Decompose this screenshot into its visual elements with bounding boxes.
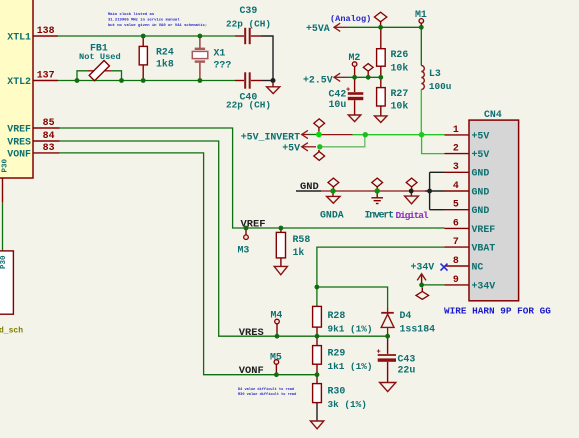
power symbol +34V [411, 262, 435, 285]
node GNDA junction [330, 188, 335, 193]
pin XTL1 (138) [7, 25, 58, 42]
svg-text:M3: M3 [238, 245, 250, 256]
power flag diamond (+5VA) [374, 12, 386, 27]
svg-text:9k1 (1%): 9k1 (1%) [328, 324, 373, 335]
capacitor C42 10u [329, 77, 364, 115]
wire FB1 bypass right [111, 71, 122, 81]
node +5VA/M1 corner junction [419, 25, 424, 30]
svg-text:+5V: +5V [472, 130, 490, 141]
CN4 pin 4 GND [445, 180, 490, 198]
CN4 pin 7 VBAT [445, 236, 496, 254]
wire VONF net [60, 153, 317, 375]
svg-text:L3: L3 [429, 68, 441, 79]
pin VONF (83) [7, 142, 60, 159]
svg-text:R26: R26 [391, 49, 409, 60]
power flag diamond (+34V) [416, 287, 429, 299]
svg-text:R58: R58 [293, 234, 311, 245]
svg-text:R29: R29 [328, 348, 346, 359]
node XTL2/X1 junction [198, 78, 203, 83]
svg-text:P30: P30 [0, 255, 8, 269]
svg-text:1k: 1k [293, 247, 305, 258]
svg-text:GND: GND [472, 186, 490, 197]
svg-text:10u: 10u [329, 99, 347, 110]
svg-text:+5V: +5V [472, 149, 490, 160]
svg-text:P30: P30 [2, 158, 10, 172]
svg-text:GNDA: GNDA [320, 210, 344, 221]
svg-text:d_sch: d_sch [0, 327, 23, 336]
svg-text:22p (CH): 22p (CH) [226, 100, 271, 111]
svg-text:GND: GND [472, 168, 490, 179]
svg-text:R24: R24 [156, 47, 174, 58]
connector CN4 [469, 109, 519, 301]
diode D4 1ss184 [381, 308, 435, 337]
inductor L3 100u [421, 27, 451, 92]
wire L3 to pin1 (bright) [420, 90, 422, 135]
svg-text:R28: R28 [328, 310, 346, 321]
svg-text:X1: X1 [214, 47, 226, 58]
svg-text:22u: 22u [398, 364, 416, 375]
resistor R30 3k (1%) [313, 375, 367, 421]
label GND [300, 181, 319, 193]
wire +2.5V net [347, 76, 381, 78]
test point M1 [415, 9, 427, 27]
svg-text:10k: 10k [391, 100, 409, 111]
node VONF/R29 junction [315, 372, 320, 377]
wire to pin 1 (bright) [353, 134, 445, 136]
node +5V branch junction [363, 132, 368, 137]
pin P30 (bottom of IC) [2, 158, 10, 202]
svg-text:6: 6 [453, 217, 459, 228]
wire GND red segment [321, 190, 425, 192]
node VBAT junction [315, 285, 320, 290]
wire VRES net [60, 141, 388, 336]
svg-text:GND: GND [472, 205, 490, 216]
svg-text:R30 value difficult to read: R30 value difficult to read [238, 392, 296, 397]
svg-text:8: 8 [453, 255, 459, 266]
node VREF/R58 junction [279, 226, 284, 231]
global label +2.5V [303, 73, 347, 85]
svg-text:+5V: +5V [282, 142, 300, 153]
CN4 pin 9 +34V [445, 274, 496, 292]
svg-text:1ss184: 1ss184 [400, 324, 436, 335]
svg-text:(Analog): (Analog) [330, 14, 371, 24]
global label +5V [282, 142, 316, 153]
svg-text:3: 3 [453, 161, 459, 172]
power symbol Invert (earth ground) [365, 178, 394, 220]
hierarchical sheet d_sch [0, 251, 23, 336]
svg-text:22p (CH): 22p (CH) [226, 18, 271, 29]
svg-text:VBAT: VBAT [472, 243, 496, 254]
svg-text:+34V: +34V [411, 262, 435, 273]
svg-text:Main clock listed as: Main clock listed as [108, 12, 155, 17]
resistor R58 1k [276, 228, 310, 266]
resistor R28 9k1 (1%) [313, 306, 373, 336]
svg-text:+5V_INVERT: +5V_INVERT [241, 132, 300, 143]
wire VREF net [60, 128, 445, 228]
svg-text:+34V: +34V [472, 280, 496, 291]
node +2.5V flag junction [366, 75, 371, 80]
svg-text:138: 138 [37, 25, 55, 36]
node +5V bright junction [317, 144, 322, 149]
ferrite bead FB1 (Not Used) [79, 42, 121, 80]
svg-text:VRES: VRES [7, 136, 31, 147]
svg-text:XTL2: XTL2 [7, 76, 31, 87]
svg-text:XTL1: XTL1 [7, 31, 31, 42]
wire pin2 (bright) [422, 135, 445, 154]
capacitor C39 22p (CH) [226, 5, 271, 44]
svg-text:CN4: CN4 [484, 109, 502, 120]
svg-text:100u: 100u [429, 81, 452, 92]
svg-text:but no value given in VA0 or V: but no value given in VA0 or VA1 schemat… [108, 23, 207, 28]
wire +5V branch (light green) [323, 135, 365, 147]
svg-text:5: 5 [453, 199, 459, 210]
node VRES/D4 junction [385, 334, 390, 339]
wire +5V_INVERT short green [310, 134, 316, 136]
test point M4 [271, 310, 283, 337]
svg-text:VRES: VRES [239, 327, 264, 339]
svg-text:C43: C43 [398, 354, 416, 365]
svg-text:31.219905 MHz in service manua: 31.219905 MHz in service manual [108, 18, 180, 23]
CN4 pin 2 +5V [445, 143, 490, 161]
svg-text:VONF: VONF [239, 365, 264, 377]
test point M2 [349, 52, 361, 77]
node XTL2/FB1 right junction [119, 78, 124, 83]
capacitor C43 22u [377, 336, 416, 382]
label VONF [239, 365, 264, 377]
power flag diamond above +5V_INVERT [314, 119, 325, 132]
svg-text:1: 1 [453, 124, 459, 135]
test point M5 [270, 351, 282, 374]
node XTL1/X1 junction [198, 34, 203, 39]
svg-text:10k: 10k [391, 63, 409, 74]
crystal X1 ??? [192, 36, 231, 81]
svg-text:GND: GND [300, 181, 319, 193]
svg-text:???: ??? [214, 59, 232, 70]
svg-text:+5VA: +5VA [306, 23, 330, 34]
CN4 pin 5 GND [445, 199, 490, 217]
svg-text:C39: C39 [240, 5, 258, 16]
svg-text:+2.5V: +2.5V [303, 74, 333, 85]
label VRES [239, 327, 264, 339]
svg-text:R30: R30 [328, 386, 346, 397]
ground (R27) [375, 116, 388, 123]
svg-text:VONF: VONF [7, 148, 31, 159]
svg-text:Not Used: Not Used [79, 52, 121, 62]
svg-text:9: 9 [453, 274, 459, 285]
node VREF/M3 junction [244, 226, 249, 231]
wire VBAT net [317, 247, 445, 307]
node C39/C40 junction (black) [271, 78, 276, 83]
power flag diamond below +5V [314, 150, 325, 161]
pin VREF (85) [7, 117, 60, 134]
test point M3 [238, 228, 250, 256]
node +2.5V/M2 junction [352, 75, 357, 80]
wire XTL2 net [58, 80, 235, 82]
ground (C42) [348, 115, 361, 122]
wire FB1 bypass left [77, 71, 88, 81]
node XTL1/R24 junction [141, 34, 146, 39]
node VONF/M5 junction [274, 372, 279, 377]
node +5VA/R26 junction [378, 25, 383, 30]
svg-text:3k (1%): 3k (1%) [328, 399, 367, 410]
node Invert junction [375, 188, 380, 193]
wire IC bottom pin to sheet [2, 203, 4, 251]
node Digital junction (black) [409, 189, 414, 194]
CN4 pin 6 VREF [445, 217, 496, 235]
node XTL2/R24 junction [141, 78, 146, 83]
ground (crystal caps) [267, 83, 280, 94]
CN4 pin 8 NC [445, 255, 484, 273]
svg-text:137: 137 [37, 70, 55, 81]
note text bottom [238, 387, 296, 397]
pin VRES (84) [7, 130, 60, 147]
svg-text:NC: NC [472, 261, 484, 272]
svg-text:84: 84 [43, 130, 55, 141]
svg-text:7: 7 [453, 236, 459, 247]
resistor R29 1k1 (1%) [313, 336, 373, 375]
svg-text:D4 value difficult to read: D4 value difficult to read [238, 387, 294, 392]
svg-text:D4: D4 [400, 310, 412, 321]
note text [108, 12, 207, 28]
ground (C43) [380, 383, 396, 392]
CN4 pin 1 +5V [445, 124, 490, 142]
resistor R24 1k8 [139, 36, 174, 81]
svg-text:VREF: VREF [7, 123, 31, 134]
svg-text:R27: R27 [391, 88, 409, 99]
node XTL2/FB1 left junction [75, 78, 80, 83]
label WIRE HARN 9P FOR GG [444, 306, 551, 317]
svg-text:VREF: VREF [472, 224, 496, 235]
node +2.5V/R26 junction [378, 75, 383, 80]
svg-text:85: 85 [43, 117, 55, 128]
svg-text:1k8: 1k8 [156, 59, 174, 70]
svg-text:Digital: Digital [396, 210, 429, 221]
node +34V junction [419, 283, 424, 288]
svg-text:Invert: Invert [365, 210, 394, 221]
ground (R58) [274, 266, 287, 274]
svg-text:1k1 (1%): 1k1 (1%) [328, 361, 373, 372]
wire pin9 [422, 284, 445, 286]
CN4 pin 3 GND [445, 161, 490, 179]
wire XTL1 net [58, 35, 235, 37]
label VREF [241, 218, 266, 230]
capacitor C40 22p (CH) [226, 72, 271, 110]
pin XTL2 (137) [7, 70, 58, 87]
node VRES/M4 junction [275, 334, 280, 339]
power flag diamond (+2.5V) [363, 64, 373, 78]
label (Analog) [330, 14, 371, 24]
ground (R30) [310, 421, 323, 429]
IC block (partial, left edge) [0, 0, 33, 178]
svg-text:2: 2 [453, 143, 459, 154]
node VRES/R28 junction [315, 334, 320, 339]
no-connect X on pin 8 [441, 264, 448, 271]
power symbol GNDA [320, 178, 344, 220]
wire red segment [322, 134, 353, 136]
resistor R26 10k [377, 27, 409, 77]
global label +5V_INVERT [241, 130, 310, 142]
wire +5VA net [347, 26, 421, 28]
resistor R27 10k [377, 77, 409, 115]
svg-text:4: 4 [453, 180, 459, 191]
node +5V_INVERT bright junction [316, 132, 322, 138]
global label +5VA [306, 23, 347, 34]
wire C39/C40 to ground (black) [261, 36, 273, 81]
node L3/pin1 junction (bright) [419, 132, 425, 138]
power symbol Digital [396, 178, 429, 221]
wire GND bus (black) [296, 172, 445, 209]
node GND bus junction (black) [427, 189, 432, 194]
svg-text:83: 83 [43, 142, 55, 153]
svg-text:WIRE HARN 9P FOR GG: WIRE HARN 9P FOR GG [444, 306, 551, 317]
